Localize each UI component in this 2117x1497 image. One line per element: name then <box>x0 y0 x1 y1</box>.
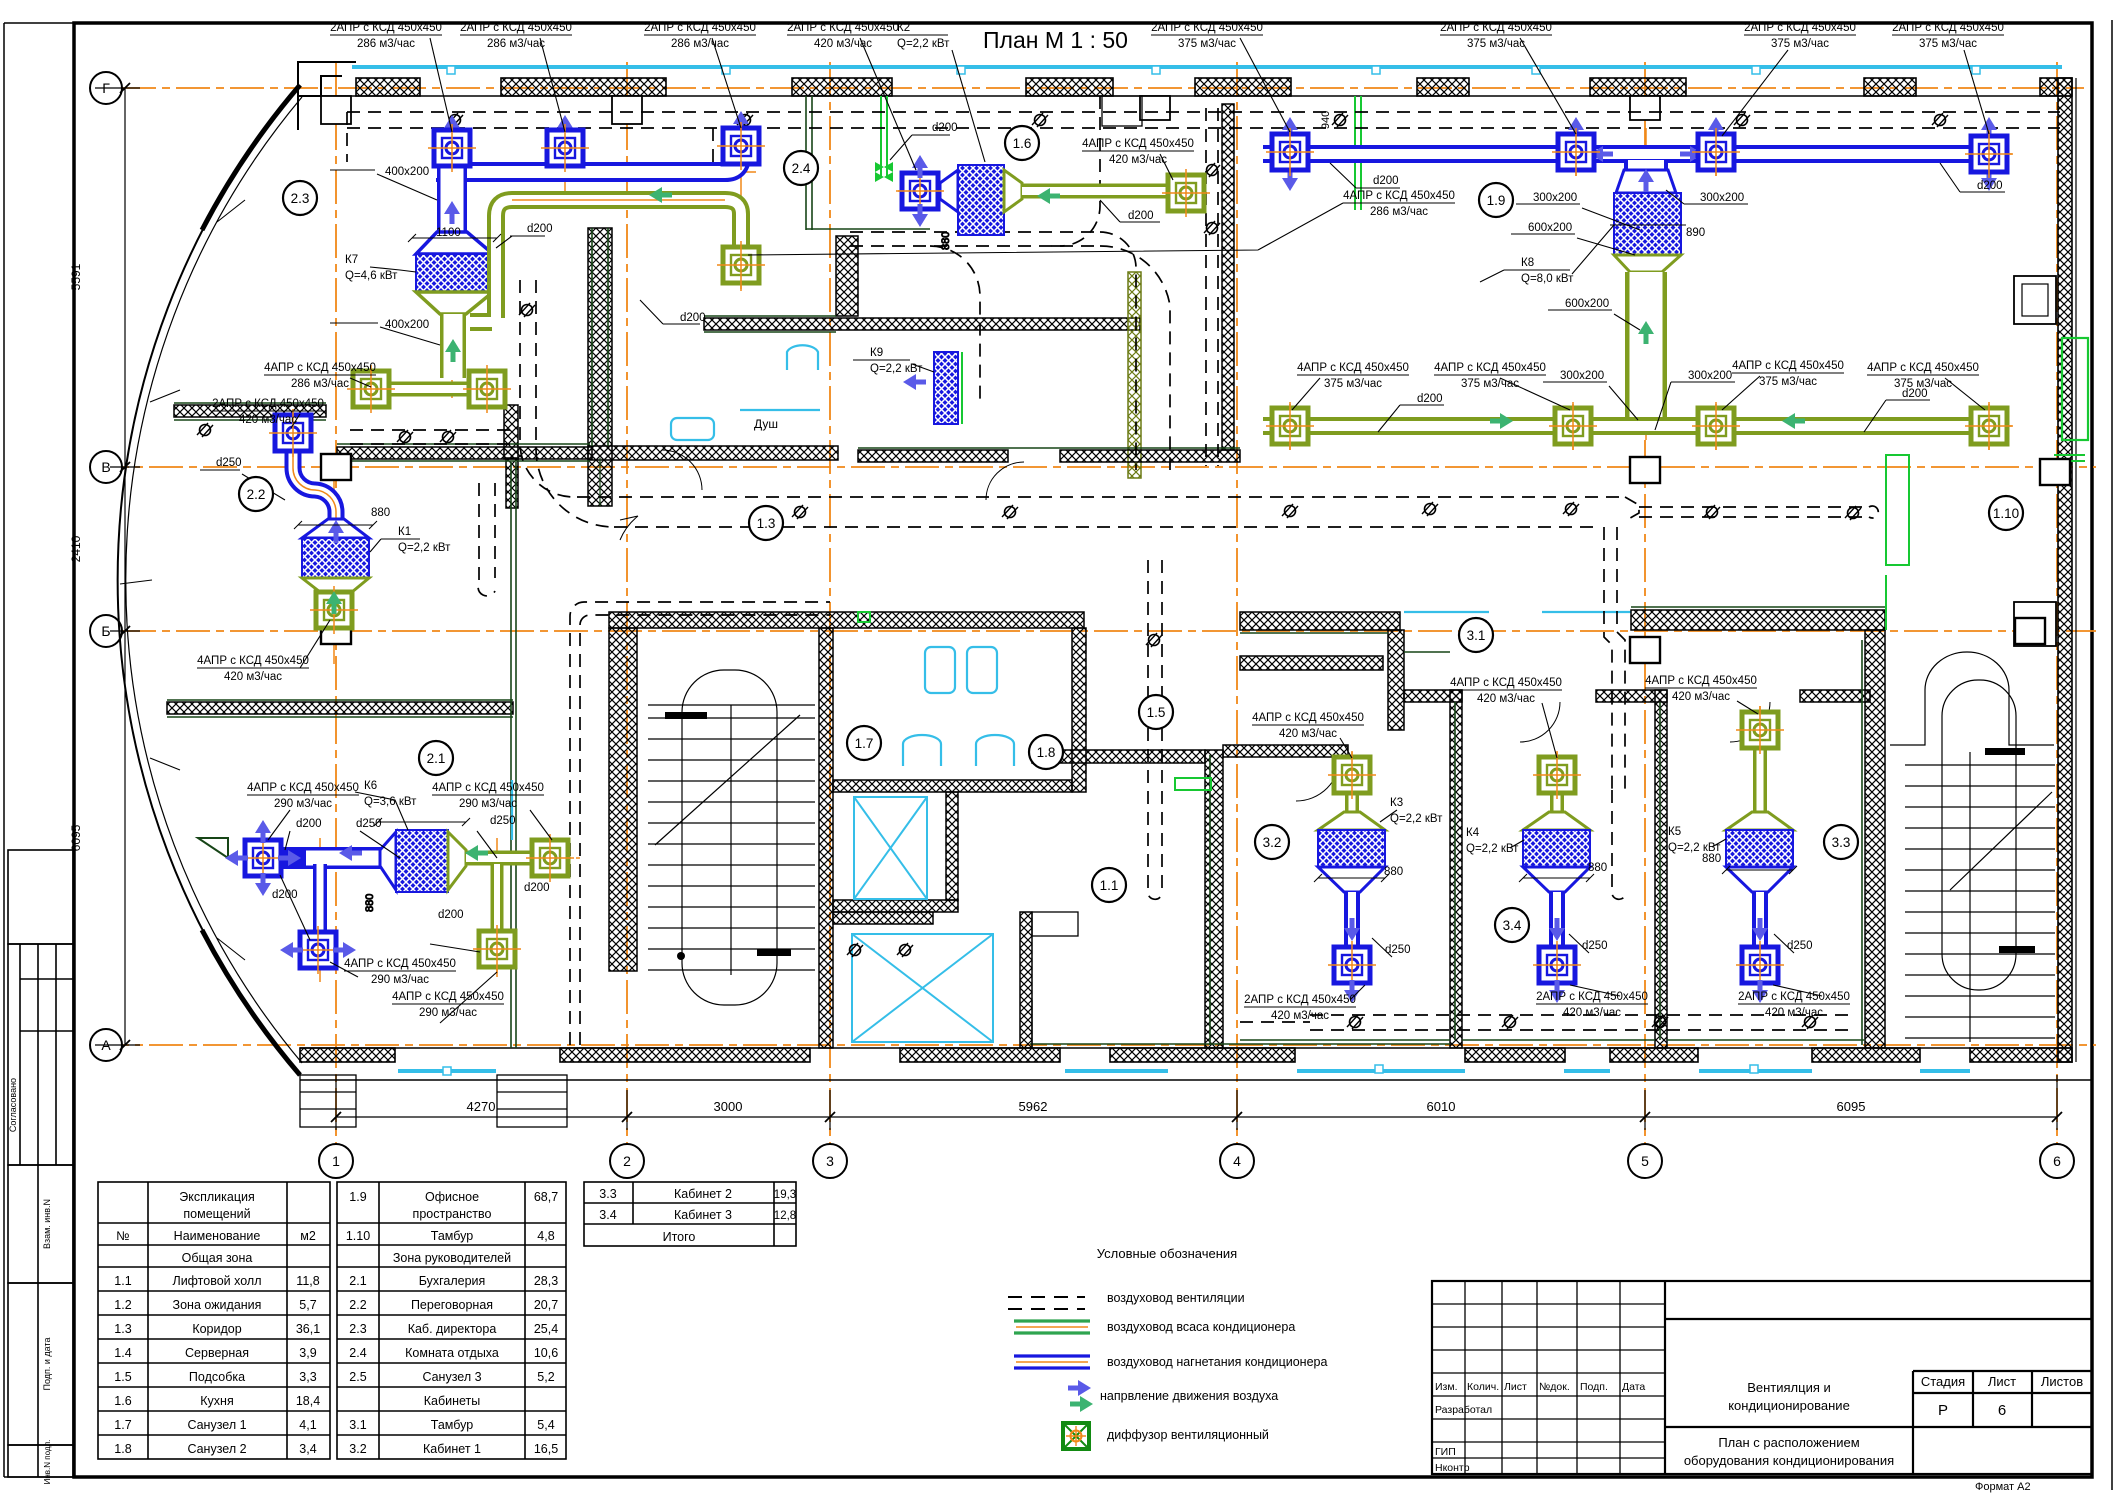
svg-text:300х200: 300х200 <box>1700 192 1744 204</box>
svg-text:2АПР с КСД 450х450: 2АПР с КСД 450х450 <box>644 22 756 34</box>
svg-text:600х200: 600х200 <box>1565 298 1609 310</box>
svg-text:2: 2 <box>623 1153 631 1169</box>
svg-text:4АПР с КСД 450х450: 4АПР с КСД 450х450 <box>1450 677 1562 689</box>
diffuser 2АПР (565,148) <box>541 124 589 172</box>
svg-text:оборудования кондиционирования: оборудования кондиционирования <box>1684 1453 1894 1468</box>
vert dashed x1154 <box>1148 560 1162 899</box>
svg-text:2АПР с КСД 450х450: 2АПР с КСД 450х450 <box>1151 22 1263 34</box>
svg-text:3.1: 3.1 <box>1467 628 1486 643</box>
wire: olive duct K2 to diffuser <box>1022 184 1168 199</box>
wire: blue branch down <box>313 864 327 942</box>
svg-text:375 м3/час: 375 м3/час <box>1178 38 1236 50</box>
tambur 1.6 west wall <box>836 236 858 316</box>
svg-text:2.1: 2.1 <box>349 1274 366 1288</box>
svg-text:400х200: 400х200 <box>385 166 429 178</box>
svg-text:Каб. директора: Каб. директора <box>408 1322 497 1336</box>
svg-text:1.9: 1.9 <box>1487 193 1506 208</box>
svg-text:4270: 4270 <box>467 1099 496 1114</box>
arrows on mains <box>1590 146 1613 162</box>
svg-text:2АПР с КСД 450х450: 2АПР с КСД 450х450 <box>1738 991 1850 1003</box>
funnel K6 right <box>448 832 466 890</box>
K4 <box>1550 790 1564 812</box>
bright green elements <box>858 96 2085 790</box>
stairwell west wall <box>609 628 637 971</box>
svg-text:Q=8,0 кВт: Q=8,0 кВт <box>1521 273 1574 285</box>
svg-text:d200: d200 <box>932 122 958 134</box>
svg-text:12,8: 12,8 <box>774 1210 796 1222</box>
diffuser 4АПР (487,389) <box>463 365 511 413</box>
diffuser 4АПР (741,265) <box>717 241 765 289</box>
toilets east wall <box>1072 628 1086 792</box>
svg-text:286 м3/час: 286 м3/час <box>671 38 729 50</box>
3.2/3.4 separator <box>1450 690 1462 1048</box>
svg-text:d200: d200 <box>1417 393 1443 405</box>
dark green triangle on arc <box>198 838 228 858</box>
svg-text:d200: d200 <box>680 312 706 324</box>
wire: blue S-duct <box>293 450 336 519</box>
svg-text:286 м3/час: 286 м3/час <box>487 38 545 50</box>
svg-text:28,3: 28,3 <box>534 1274 558 1288</box>
svg-text:d200: d200 <box>296 818 322 830</box>
svg-text:286 м3/час: 286 м3/час <box>1370 206 1428 218</box>
svg-text:19,3: 19,3 <box>774 1189 796 1201</box>
funnel K8 top <box>1616 170 1676 193</box>
unit K7 <box>416 254 493 292</box>
corridor south wall right <box>1631 610 1885 630</box>
3.2 top wall <box>1223 745 1348 757</box>
svg-text:Условные обозначения: Условные обозначения <box>1097 1246 1237 1261</box>
arrows <box>444 115 460 138</box>
svg-text:5,2: 5,2 <box>537 1370 554 1384</box>
top row labels with leaders <box>330 22 2004 50</box>
svg-text:Кабинет 2: Кабинет 2 <box>674 1187 732 1201</box>
svg-text:Подп. и дата: Подп. и дата <box>42 1337 52 1390</box>
grid intersection column stubs <box>321 454 351 480</box>
svg-text:6010: 6010 <box>1427 1099 1456 1114</box>
svg-text:286 м3/час: 286 м3/час <box>357 38 415 50</box>
svg-text:3,3: 3,3 <box>299 1370 316 1384</box>
svg-text:4АПР с КСД 450х450: 4АПР с КСД 450х450 <box>1732 360 1844 372</box>
svg-text:К5: К5 <box>1668 826 1681 838</box>
door swing arcs <box>620 450 1770 801</box>
col 2 <box>626 62 628 1143</box>
svg-text:Коридор: Коридор <box>192 1322 241 1336</box>
vert dashed sanuzel to corridor <box>520 280 614 527</box>
svg-text:2.4: 2.4 <box>349 1346 366 1360</box>
svg-text:1.1: 1.1 <box>1100 878 1119 893</box>
vert dashed x1610 down <box>1604 527 1625 790</box>
left dimension line <box>95 83 140 1050</box>
svg-text:Кабинеты: Кабинеты <box>424 1394 481 1408</box>
dashed in 1.4/1.5 area <box>1050 96 1100 246</box>
svg-text:К9: К9 <box>870 347 883 359</box>
diffuser 4АПР (497,952) <box>473 925 521 973</box>
svg-text:5591: 5591 <box>69 263 83 290</box>
svg-text:№док.: №док. <box>1539 1381 1570 1393</box>
svg-text:2АПР с КСД 450х450: 2АПР с КСД 450х450 <box>1536 991 1648 1003</box>
svg-text:Р: Р <box>1938 1402 1948 1419</box>
svg-text:1.6: 1.6 <box>114 1394 131 1408</box>
svg-text:Взам. инв.N: Взам. инв.N <box>42 1199 52 1249</box>
svg-text:3,9: 3,9 <box>299 1346 316 1360</box>
svg-text:890: 890 <box>1686 227 1705 239</box>
svg-text:375 м3/час: 375 м3/час <box>1894 378 1952 390</box>
svg-text:11,8: 11,8 <box>296 1274 319 1288</box>
svg-text:Зона руководителей: Зона руководителей <box>393 1251 511 1265</box>
wire: blue main y172 <box>436 156 741 172</box>
wire: olive tee to diffusers <box>358 382 498 397</box>
unit K6 <box>396 830 448 892</box>
svg-text:воздуховод вентиляции: воздуховод вентиляции <box>1107 1291 1245 1305</box>
funnel K1 bottom <box>302 578 369 592</box>
dashed ventilation ducts <box>347 96 2060 1045</box>
svg-text:375 м3/час: 375 м3/час <box>1919 38 1977 50</box>
dashed along office separator <box>1206 108 1218 466</box>
svg-text:2АПР с КСД 450х450: 2АПР с КСД 450х450 <box>787 22 899 34</box>
svg-text:Санузел 3: Санузел 3 <box>422 1370 481 1384</box>
svg-text:4АПР с КСД 450х450: 4АПР с КСД 450х450 <box>247 782 359 794</box>
svg-text:4АПР с КСД 450х450: 4АПР с КСД 450х450 <box>392 991 504 1003</box>
svg-text:1.9: 1.9 <box>349 1190 366 1204</box>
lift hall top wall <box>1032 750 1205 763</box>
duct centerlines (orange) <box>240 128 2012 990</box>
svg-text:2АПР с КСД 450х450: 2АПР с КСД 450х450 <box>330 22 442 34</box>
office/kitchen separator <box>1222 104 1234 450</box>
svg-text:напрвление движения воздуха: напрвление движения воздуха <box>1100 1389 1278 1403</box>
svg-text:№: № <box>116 1229 129 1243</box>
svg-text:2.2: 2.2 <box>349 1298 366 1312</box>
svg-text:Тамбур: Тамбур <box>431 1229 473 1243</box>
unit K8 <box>1614 193 1681 255</box>
svg-text:d200: d200 <box>1128 210 1154 222</box>
svg-text:Серверная: Серверная <box>185 1346 249 1360</box>
svg-text:Q=2,2 кВт: Q=2,2 кВт <box>1466 843 1519 855</box>
room number circles <box>239 126 2023 942</box>
svg-text:2АПР с КСД 450х450: 2АПР с КСД 450х450 <box>1440 22 1552 34</box>
svg-text:Б: Б <box>101 623 110 639</box>
right exterior wall <box>2058 78 2072 1062</box>
svg-text:880: 880 <box>1588 862 1607 874</box>
svg-text:1.10: 1.10 <box>346 1229 370 1243</box>
svg-text:1100: 1100 <box>436 227 461 239</box>
cyan segments corridor right <box>1404 611 1631 613</box>
svg-text:600х200: 600х200 <box>1528 222 1572 234</box>
svg-text:18,4: 18,4 <box>296 1394 320 1408</box>
dashed left of stairwell <box>570 602 830 1045</box>
svg-text:Общая зона: Общая зона <box>182 1251 253 1265</box>
svg-text:d200: d200 <box>1977 180 2003 192</box>
wall row В left-mid <box>337 447 592 459</box>
diffuser 4АПР (371,389) <box>347 365 395 413</box>
svg-text:6095: 6095 <box>69 824 83 851</box>
svg-text:Подп.: Подп. <box>1580 1381 1608 1393</box>
svg-text:290 м3/час: 290 м3/час <box>371 974 429 986</box>
toilets bottom wall <box>833 780 1072 792</box>
svg-text:4АПР с КСД 450х450: 4АПР с КСД 450х450 <box>1343 190 1455 202</box>
svg-text:Тамбур: Тамбур <box>431 1418 473 1432</box>
svg-text:300х200: 300х200 <box>1533 192 1577 204</box>
wall y330 kitchen <box>704 318 1140 330</box>
svg-text:4АПР с КСД 450х450: 4АПР с КСД 450х450 <box>1082 138 1194 150</box>
svg-text:2.2: 2.2 <box>247 487 266 502</box>
svg-text:420 м3/час: 420 м3/час <box>1477 693 1535 705</box>
svg-text:К4: К4 <box>1466 827 1480 839</box>
left stamp boxes <box>8 850 73 1477</box>
svg-text:3.4: 3.4 <box>599 1208 616 1222</box>
diffuser 2АПР (293,433) <box>269 409 317 457</box>
svg-text:2АПР с КСД 450х450: 2АПР с КСД 450х450 <box>1744 22 1856 34</box>
short run room 2.3 <box>350 430 510 444</box>
svg-text:d200: d200 <box>524 882 550 894</box>
svg-text:Стадия: Стадия <box>1921 1374 1965 1389</box>
unit K1 <box>302 538 369 578</box>
top exterior wall: cyan window band <box>352 65 2062 69</box>
svg-text:5: 5 <box>1641 1153 1649 1169</box>
diffusers on olive main <box>1266 402 1314 450</box>
svg-text:d200: d200 <box>272 889 298 901</box>
svg-text:420 м3/час: 420 м3/час <box>224 671 282 683</box>
svg-text:Подсобка: Подсобка <box>189 1370 245 1384</box>
svg-text:Q=2,2 кВт: Q=2,2 кВт <box>398 542 451 554</box>
row Г <box>122 87 2084 89</box>
col 4 <box>1236 62 1238 1143</box>
funnel K1 top <box>302 519 369 538</box>
wide dashed duct from 2.4 down <box>1100 232 1136 470</box>
svg-text:Офисное: Офисное <box>425 1190 479 1204</box>
svg-text:К2: К2 <box>897 22 910 34</box>
svg-text:d250: d250 <box>356 818 382 830</box>
svg-text:воздуховод нагнетания кондицио: воздуховод нагнетания кондиционера <box>1107 1355 1327 1369</box>
right wall bay boxes <box>2014 276 2056 324</box>
svg-text:5,4: 5,4 <box>537 1418 554 1432</box>
svg-text:4АПР с КСД 450х450: 4АПР с КСД 450х450 <box>1252 712 1364 724</box>
svg-text:2.5: 2.5 <box>349 1370 366 1384</box>
wire: olive riser 600x200 <box>1625 272 1667 418</box>
svg-text:2.1: 2.1 <box>427 751 446 766</box>
svg-text:880: 880 <box>371 507 390 519</box>
diffuser 4АПР (320,957) <box>294 926 342 974</box>
svg-text:25,4: 25,4 <box>534 1322 558 1336</box>
svg-text:2410: 2410 <box>69 535 83 562</box>
svg-text:420 м3/час: 420 м3/час <box>1109 154 1167 166</box>
svg-text:Душ: Душ <box>754 417 778 431</box>
svg-text:пространство: пространство <box>413 1207 492 1221</box>
svg-text:3.2: 3.2 <box>349 1442 366 1456</box>
svg-text:Изм.: Изм. <box>1435 1381 1458 1393</box>
svg-text:1.1: 1.1 <box>114 1274 131 1288</box>
shaft1 walls <box>946 792 958 900</box>
svg-text:К8: К8 <box>1521 257 1534 269</box>
svg-text:36,1: 36,1 <box>296 1322 320 1336</box>
svg-text:420 м3/час: 420 м3/час <box>814 38 872 50</box>
svg-text:1.6: 1.6 <box>1013 136 1032 151</box>
svg-text:d200: d200 <box>527 223 553 235</box>
svg-text:Q=4,6 кВт: Q=4,6 кВт <box>345 270 398 282</box>
svg-text:кондиционирование: кондиционирование <box>1728 1398 1850 1413</box>
funnel K6 left <box>380 832 396 890</box>
in-plan labels <box>216 122 2003 956</box>
wire: olive return main (2.4 room) <box>470 200 741 322</box>
funnel K8 bottom <box>1614 255 1681 272</box>
svg-text:диффузор вентиляционный: диффузор вентиляционный <box>1107 1428 1269 1442</box>
svg-text:6: 6 <box>1998 1402 2006 1419</box>
svg-text:1.7: 1.7 <box>114 1418 131 1432</box>
svg-text:375 м3/час: 375 м3/час <box>1771 38 1829 50</box>
svg-text:4,8: 4,8 <box>537 1229 554 1243</box>
small dimension ticks near units <box>294 225 1797 912</box>
svg-text:Дата: Дата <box>1622 1381 1645 1393</box>
svg-text:880: 880 <box>940 232 952 250</box>
legend diffuser icon <box>1063 1423 1089 1449</box>
svg-text:1.5: 1.5 <box>1147 705 1166 720</box>
central corridor duct <box>577 496 1625 498</box>
svg-text:Кабинет 3: Кабинет 3 <box>674 1208 732 1222</box>
svg-text:К3: К3 <box>1390 797 1403 809</box>
col 3 <box>829 62 831 1143</box>
sanuzel south wall <box>588 446 838 460</box>
svg-text:Согласовано: Согласовано <box>8 1078 18 1132</box>
diffuser 2АПР (741,146) <box>717 122 765 170</box>
orange axis grid <box>95 62 2096 1143</box>
svg-text:420 м3/час: 420 м3/час <box>1279 728 1337 740</box>
svg-text:290 м3/час: 290 м3/час <box>274 798 332 810</box>
3.3 top wall <box>1800 690 1870 702</box>
left facade arc <box>118 85 300 1075</box>
sanuzel block west wall <box>588 228 612 506</box>
svg-text:2АПР с КСД 450х450: 2АПР с КСД 450х450 <box>1892 22 2004 34</box>
svg-text:Кухня: Кухня <box>200 1394 233 1408</box>
svg-text:1.5: 1.5 <box>114 1370 131 1384</box>
svg-text:Кабинет 1: Кабинет 1 <box>423 1442 481 1456</box>
bottom rooms run <box>1310 1015 1850 1030</box>
svg-text:3.2: 3.2 <box>1263 835 1282 850</box>
row А <box>95 1044 2096 1046</box>
svg-text:2.3: 2.3 <box>349 1322 366 1336</box>
svg-text:воздуховод всаса кондиционера: воздуховод всаса кондиционера <box>1107 1320 1295 1334</box>
3.1 tambour walls <box>1240 612 1400 630</box>
svg-text:Лист: Лист <box>1504 1381 1527 1393</box>
svg-text:1: 1 <box>332 1153 340 1169</box>
svg-text:4АПР с КСД 450х450: 4АПР с КСД 450х450 <box>197 655 309 667</box>
svg-text:4АПР с КСД 450х450: 4АПР с КСД 450х450 <box>1645 675 1757 687</box>
entrance steps bottom <box>300 1075 567 1127</box>
svg-text:290 м3/час: 290 м3/час <box>419 1007 477 1019</box>
left stairwell <box>648 670 815 1005</box>
svg-text:Листов: Листов <box>2041 1374 2083 1389</box>
svg-text:К1: К1 <box>398 526 411 538</box>
svg-text:2АПР с КСД 450х450: 2АПР с КСД 450х450 <box>212 398 324 410</box>
bottom exterior wall <box>300 1047 2072 1049</box>
svg-text:420 м3/час: 420 м3/час <box>1271 1010 1329 1022</box>
svg-text:4АПР с КСД 450х450: 4АПР с КСД 450х450 <box>344 958 456 970</box>
top corridor run along top wall <box>347 127 2060 129</box>
svg-text:Формат А2: Формат А2 <box>1975 1481 2031 1493</box>
svg-text:420 м3/час: 420 м3/час <box>239 414 297 426</box>
top-left corner step <box>298 62 356 130</box>
svg-text:Экспликация: Экспликация <box>179 1190 255 1204</box>
svg-text:3.3: 3.3 <box>599 1187 616 1201</box>
svg-text:м2: м2 <box>300 1229 316 1243</box>
svg-text:375 м3/час: 375 м3/час <box>1461 378 1519 390</box>
svg-text:К7: К7 <box>345 254 358 266</box>
svg-text:Нконтр: Нконтр <box>1435 1462 1470 1474</box>
svg-text:1.3: 1.3 <box>114 1322 131 1336</box>
svg-text:План с расположением: План с расположением <box>1718 1435 1859 1450</box>
corridor top wall right of sanuzel <box>858 450 1008 462</box>
room 2.4 run <box>850 232 1100 246</box>
svg-text:68,7: 68,7 <box>534 1190 558 1204</box>
svg-text:2АПР с КСД 450х450: 2АПР с КСД 450х450 <box>460 22 572 34</box>
svg-text:К6: К6 <box>364 780 377 792</box>
svg-text:1.2: 1.2 <box>114 1298 131 1312</box>
svg-text:2АПР с КСД 450х450: 2АПР с КСД 450х450 <box>1244 994 1356 1006</box>
wire: blue main y154 <box>1263 145 2007 163</box>
svg-text:Вентиялция и: Вентиялция и <box>1747 1380 1831 1395</box>
svg-text:d200: d200 <box>1373 175 1399 187</box>
svg-text:Комната отдыха: Комната отдыха <box>405 1346 499 1360</box>
bottom dimension line <box>331 1075 2062 1130</box>
svg-text:Q=3,6 кВт: Q=3,6 кВт <box>364 796 417 808</box>
svg-text:6: 6 <box>2053 1153 2061 1169</box>
svg-text:2.3: 2.3 <box>291 191 310 206</box>
svg-text:1.7: 1.7 <box>855 736 874 751</box>
wall kitchen south step <box>504 405 518 459</box>
svg-text:План М 1 : 50: План М 1 : 50 <box>983 27 1128 53</box>
funnel K2 left <box>940 170 958 212</box>
room 2.1 top wall <box>167 702 513 714</box>
diffuser 4АПР (1173,191) <box>1162 169 1210 217</box>
damper symbols on dashed runs <box>447 113 463 127</box>
svg-text:4АПР с КСД 450х450: 4АПР с КСД 450х450 <box>264 362 376 374</box>
dark green duct lines along walls <box>167 96 1885 1048</box>
stairwell east wall <box>819 628 833 1048</box>
svg-text:3.1: 3.1 <box>349 1418 366 1432</box>
svg-text:4,1: 4,1 <box>299 1418 316 1432</box>
wire: blue duct to K6 <box>281 847 383 869</box>
svg-text:3.3: 3.3 <box>1832 835 1851 850</box>
svg-text:Лифтовой холл: Лифтовой холл <box>172 1274 261 1288</box>
svg-text:5,7: 5,7 <box>299 1298 316 1312</box>
stairwell top wall <box>609 612 1084 628</box>
diffusers on blue main <box>1266 128 1314 176</box>
vert dashed room 2.1 <box>478 483 495 596</box>
diffuser 2АПР (452,148) <box>428 124 476 172</box>
svg-text:3.4: 3.4 <box>1503 918 1522 933</box>
K3 <box>1345 790 1359 812</box>
svg-text:d200: d200 <box>438 909 464 921</box>
drop in kitchen <box>712 128 714 178</box>
unit K2 <box>958 165 1004 235</box>
svg-text:2.4: 2.4 <box>792 161 811 176</box>
row Б <box>122 630 2096 632</box>
svg-text:420 м3/час: 420 м3/час <box>1563 1007 1621 1019</box>
svg-text:ГИП: ГИП <box>1435 1446 1456 1458</box>
svg-text:Бухгалерия: Бухгалерия <box>419 1274 486 1288</box>
svg-text:1.4: 1.4 <box>114 1346 131 1360</box>
svg-text:В: В <box>101 459 110 475</box>
shaft2 walls <box>1020 912 1032 1048</box>
svg-text:4АПР с КСД 450х450: 4АПР с КСД 450х450 <box>1297 362 1409 374</box>
svg-text:Q=2,2 кВт: Q=2,2 кВт <box>1390 813 1443 825</box>
svg-text:Лист: Лист <box>1988 1374 2016 1389</box>
right stairwell west wall <box>1865 630 1885 1048</box>
svg-text:3,4: 3,4 <box>299 1442 316 1456</box>
svg-text:Санузел 2: Санузел 2 <box>187 1442 246 1456</box>
svg-text:Q=2,2 кВт: Q=2,2 кВт <box>897 38 950 50</box>
svg-text:Наименование: Наименование <box>174 1229 261 1243</box>
col 5 <box>1644 62 1646 1143</box>
svg-text:375 м3/час: 375 м3/час <box>1759 376 1817 388</box>
